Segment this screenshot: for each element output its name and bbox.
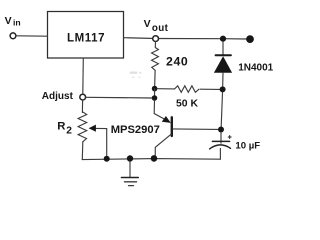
emitter wire from adjust junction [154, 100, 166, 120]
junction dot adjust line [152, 95, 158, 101]
svg-text:50 K: 50 K [176, 99, 198, 110]
node Vout label [144, 18, 169, 34]
label R2 [57, 121, 72, 137]
wire bottom rail [82, 159, 220, 160]
junction dot at diode top [220, 36, 226, 42]
svg-text:10 µF: 10 µF [235, 141, 260, 152]
svg-text:MPS2907: MPS2907 [111, 124, 160, 136]
anode triangle [214, 56, 232, 72]
wire diode junction down to cap junction [221, 92, 222, 126]
cathode bar [216, 54, 231, 56]
svg-text:out: out [152, 23, 169, 34]
wire between stacked junctions [154, 89, 156, 98]
curved bottom plate [210, 145, 231, 149]
ground [121, 162, 138, 186]
svg-text:in: in [13, 17, 21, 27]
output terminal dot [246, 35, 254, 43]
node Adjust terminal [80, 94, 86, 100]
wire Adjust node to junction [86, 96, 152, 99]
junction dot base/capacitor [218, 127, 224, 133]
wire base lead to cap junction [173, 128, 218, 131]
node Vin label [5, 15, 21, 28]
junction dot 240/50K [152, 86, 158, 92]
node Adjust label [42, 91, 74, 102]
svg-text:R: R [57, 121, 65, 133]
resistor R2 (vertical zigzag potentiometer) [78, 112, 87, 160]
junction dot diode/50K [220, 86, 226, 92]
wire Adjust node down to R2 [81, 100, 83, 112]
resistor R3 50K (horizontal zigzag) [175, 86, 199, 93]
wire 50K to diode junction [200, 88, 219, 90]
collector diagonal [155, 134, 171, 158]
wire LM117 adjust pin down to Adjust node [82, 58, 85, 94]
svg-text:1N4001: 1N4001 [238, 63, 273, 74]
wire Vin to LM117 input [16, 35, 47, 37]
wire 50K junction from 240 junction [157, 88, 174, 90]
junction dot collector/rail [151, 155, 158, 162]
junction dot wiper/rail [104, 156, 110, 162]
svg-text:Adjust: Adjust [42, 91, 74, 102]
node Vout terminal [153, 36, 159, 42]
svg-text:V: V [5, 15, 12, 27]
junction dot ground/rail [127, 155, 133, 161]
regulator U1 LM117 [48, 12, 124, 59]
wire LM117 output to Vout node and right terminal [124, 38, 248, 39]
potentiometer wiper arrow of R2 [89, 125, 107, 156]
svg-text:2: 2 [66, 126, 72, 137]
base bar [171, 117, 173, 136]
emitter arrow into base bar [162, 116, 171, 123]
capacitor C1 10uF (polarized) [210, 133, 232, 160]
resistor R1 240 (vertical zigzag) [152, 48, 159, 86]
svg-text:LM117: LM117 [67, 33, 105, 45]
transistor Q1 MPS2907 (PNP) [154, 100, 172, 158]
top plate [212, 140, 229, 142]
wire Vout down to resistor 240 [154, 42, 156, 48]
node Vin terminal [10, 33, 16, 39]
svg-text:240: 240 [166, 55, 188, 69]
plus sign [228, 136, 231, 139]
diode D1 1N4001 (cathode up) [214, 42, 232, 87]
svg-text:V: V [144, 18, 151, 30]
